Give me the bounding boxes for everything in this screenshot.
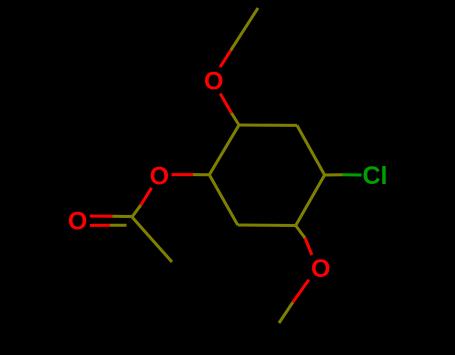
bond V3 to Cl (olive half) (325, 173, 343, 176)
wire ring edge V1-V2 (239, 124, 297, 127)
ester O to carbonyl C bond (red half) (141, 188, 152, 205)
wire ring edge V3-V4 (296, 175, 325, 226)
carbonyl C=O double bond lower line (olive half) (110, 224, 127, 227)
svg-text:O: O (311, 255, 330, 283)
bottom O-CH3 bond (red half) (293, 280, 309, 303)
bond V6 to ester O (olive half) (193, 173, 209, 176)
wire ring edge V2-V3 (297, 125, 325, 175)
bond V4 to bottom methoxy O (olive half) (296, 226, 305, 239)
wire ring edge V4-V5 (238, 224, 296, 228)
wire ring edge V6-V1 (209, 125, 239, 175)
acetyl C-CH3 bond (132, 217, 172, 262)
carbonyl C=O double bond upper line (red half) (90, 215, 113, 218)
bond V6 to ester O (red half) (172, 173, 194, 176)
carbonyl C=O double bond upper line (olive half) (113, 215, 132, 218)
svg-text:O: O (68, 208, 87, 236)
wire ring edge V5-V6 (209, 175, 237, 225)
bottom O-CH3 bond (olive half to methyl end) (279, 302, 293, 323)
bond V4 to bottom methoxy O (red half) (305, 238, 312, 255)
benzene ring C1-C6 (209, 125, 324, 226)
top O-CH3 bond (red half) (220, 50, 231, 67)
ester O to carbonyl C bond (olive half) (132, 205, 141, 217)
bond V1 to top methoxy O (olive half) (231, 113, 239, 125)
bond V1 to top methoxy O (red half) (220, 94, 231, 114)
svg-text:O: O (150, 162, 169, 190)
bond V3 to Cl (green half) (343, 173, 362, 176)
svg-text:Cl: Cl (363, 162, 388, 190)
svg-text:O: O (204, 68, 223, 96)
carbonyl C=O double bond lower line (red half) (90, 224, 110, 227)
top O-CH3 bond (olive half to methyl end) (231, 8, 258, 50)
